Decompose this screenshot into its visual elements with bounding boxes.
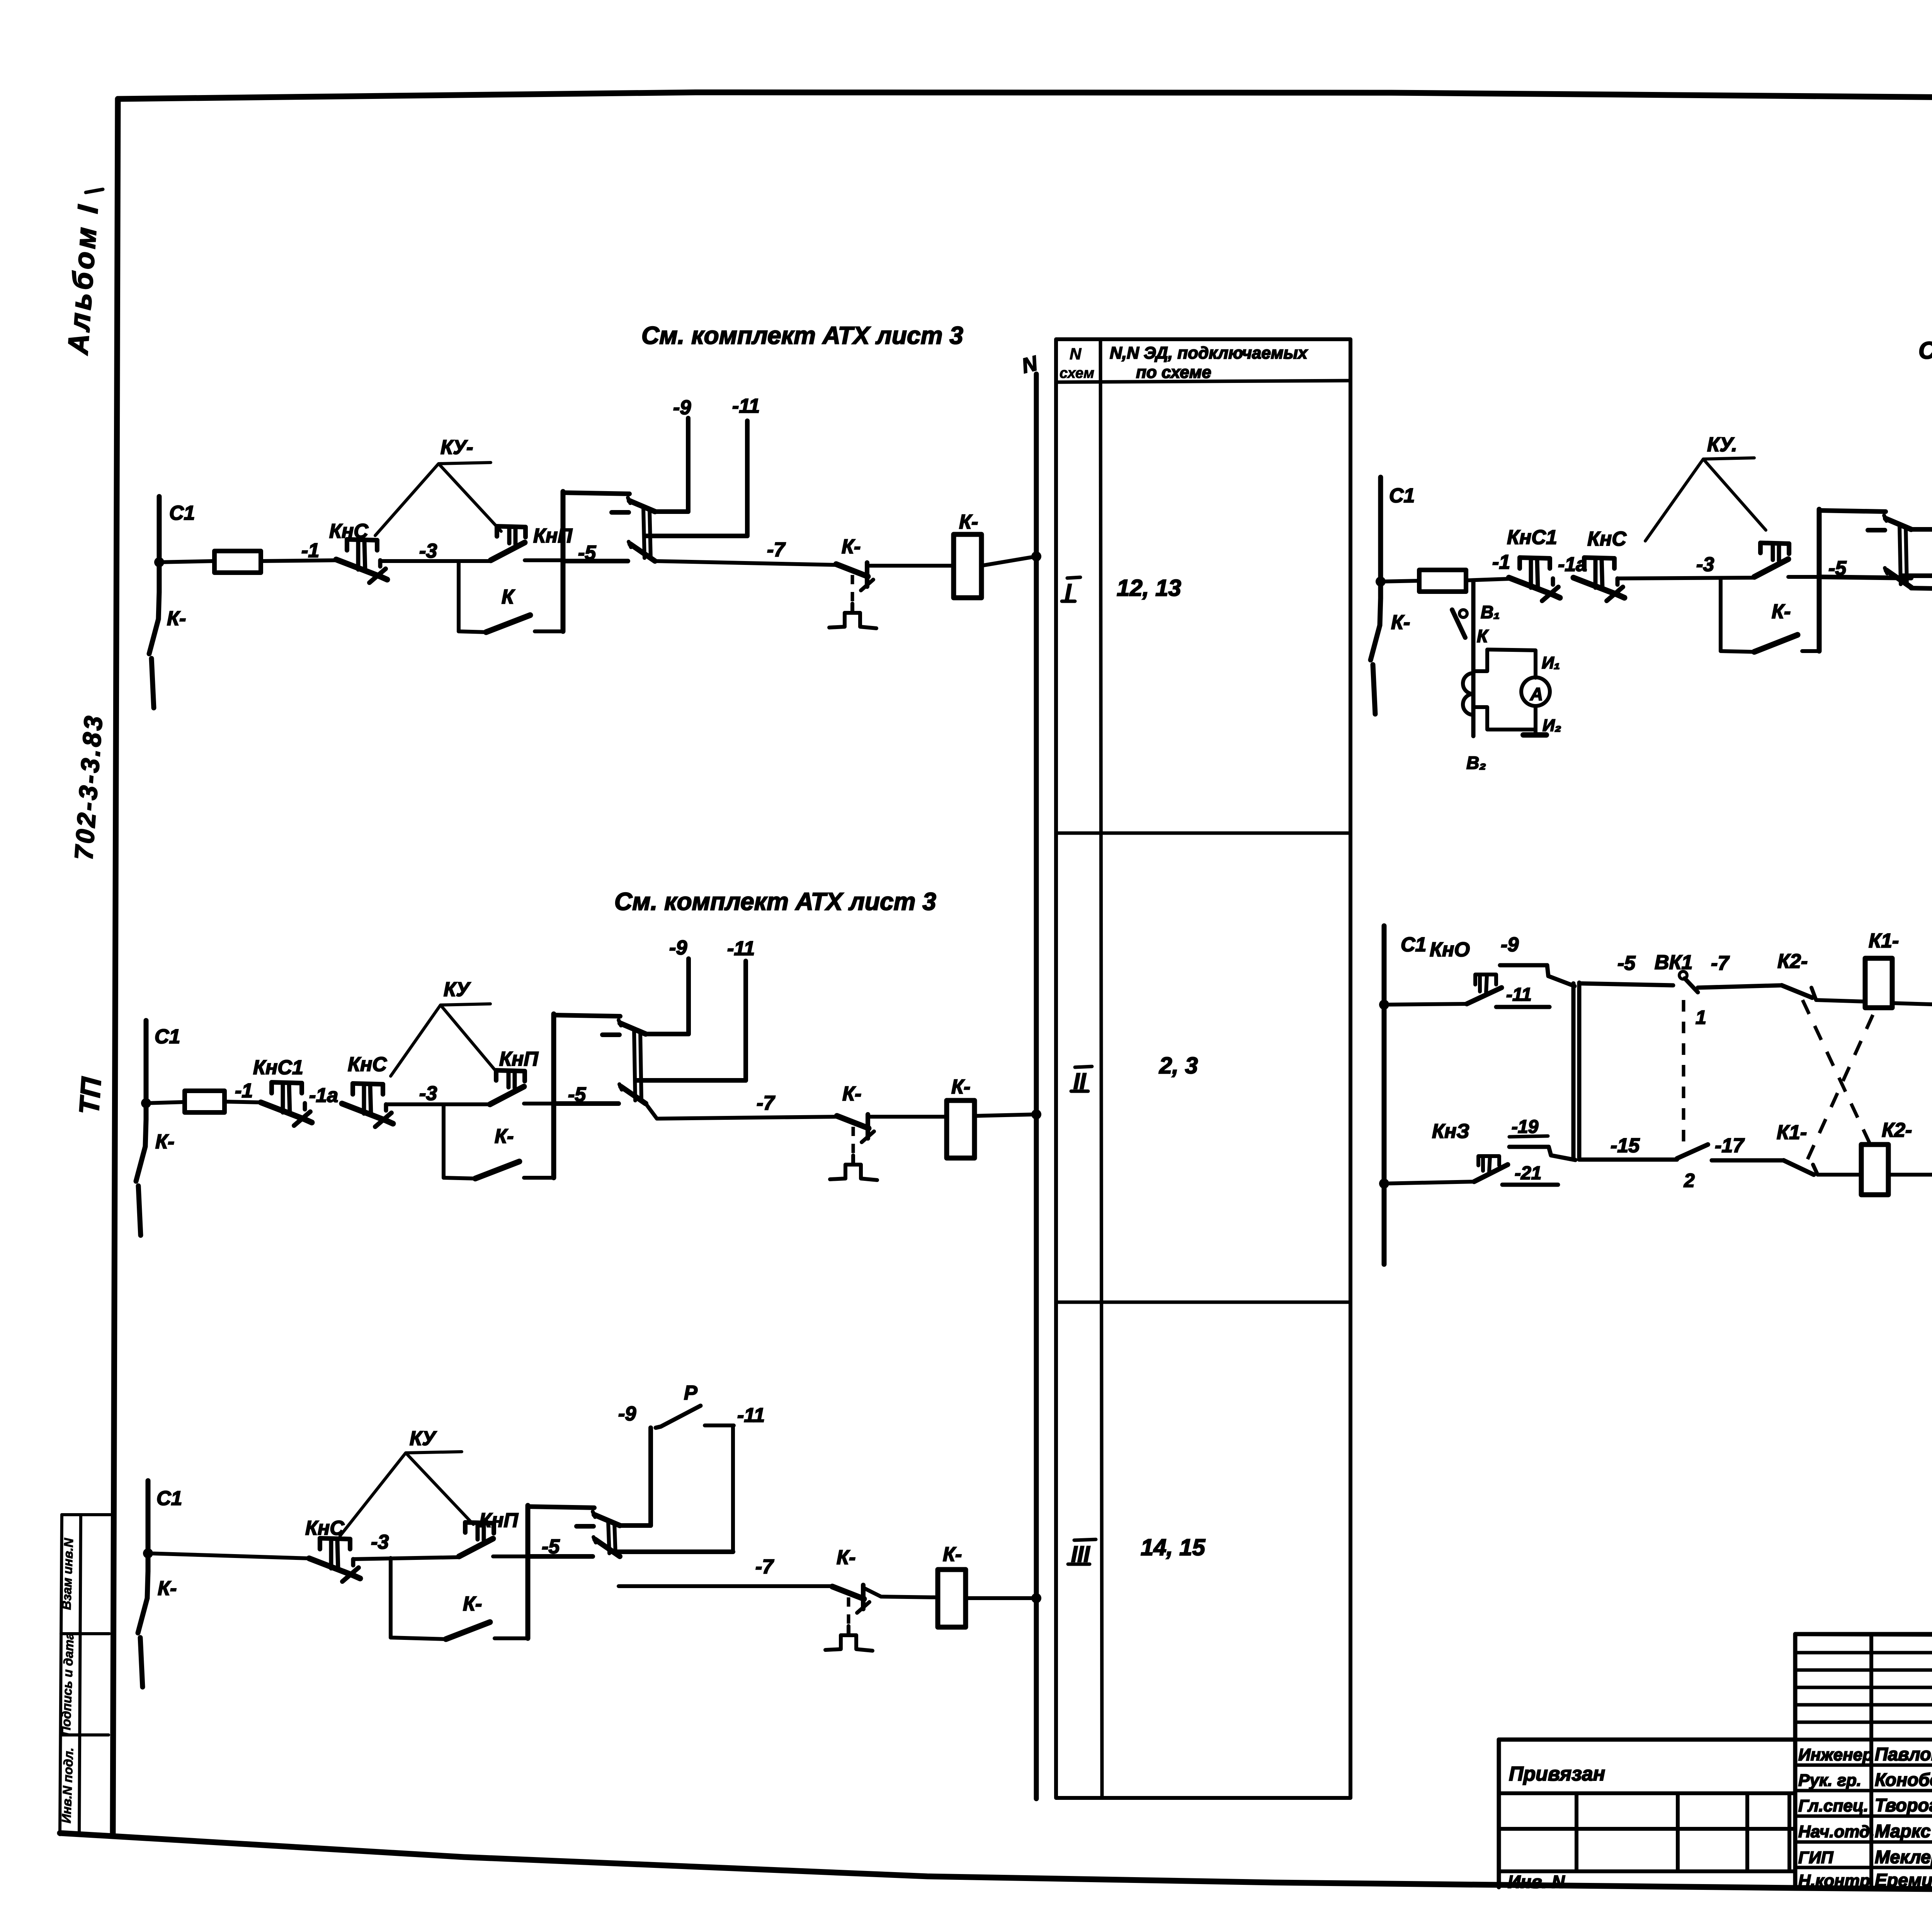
disconnect К- on bus (circuit I) — [158, 592, 159, 619]
linkage КУ (circuit IV) — [1645, 458, 1766, 541]
bus N (left table) — [1034, 374, 1039, 1799]
svg-text:-1: -1 — [235, 1080, 253, 1102]
title main box top line — [1795, 1634, 1932, 1637]
svg-text:КнП: КнП — [499, 1048, 539, 1070]
svg-text:Меклер: Меклер — [1875, 1847, 1932, 1867]
wire: C1 to fuse (circuit I) — [159, 561, 214, 562]
wire: fuse to КнС1 (circuit II) — [224, 1102, 261, 1102]
svg-text:К-: К- — [951, 1076, 970, 1098]
wire: secondary bottom stub (circuit IV) — [1475, 706, 1536, 733]
left table row I overline — [1067, 577, 1080, 578]
svg-text:Маркс: Маркс — [1875, 1821, 1931, 1841]
svg-text:КУ.: КУ. — [1707, 434, 1737, 456]
linkage КУ (circuit III) — [340, 1452, 473, 1536]
wire: КнС to КнП (circuit I) — [380, 559, 490, 563]
terminal -19 overline (circuit V) — [1509, 1136, 1548, 1137]
wire: КнП to -5 vertical (circuit II) — [524, 1102, 554, 1105]
wire: branch В1 down (circuit IV) — [1471, 582, 1476, 736]
svg-text:К-: К- — [155, 1131, 174, 1153]
wire: C1 to fuse (circuit IV) — [1381, 581, 1419, 582]
wire: КнС to КнП (circuit IV) — [1617, 578, 1754, 578]
frame bottom border — [60, 1833, 1932, 1890]
signoff thin row line 4 — [1795, 1703, 1932, 1707]
wire: ВК1 to К2- (circuit V) — [1698, 985, 1782, 988]
push-button КнС (circuit I) — [336, 560, 387, 580]
dashed cross link 2 (circuit V) — [1808, 1005, 1877, 1159]
wire: КнС to КнП (circuit III) — [353, 1557, 459, 1559]
wire: top rail to ВК1 (circuit V) — [1579, 983, 1673, 985]
wire: bus to КнЗ (circuit V) — [1384, 1182, 1474, 1184]
svg-text:Рук. гр.: Рук. гр. — [1798, 1771, 1861, 1790]
svg-text:-3: -3 — [1696, 553, 1714, 576]
svg-text:-9: -9 — [673, 396, 691, 419]
signoff thin row line 3 — [1795, 1686, 1932, 1689]
svg-text:12, 13: 12, 13 — [1117, 575, 1181, 601]
svg-text:-5: -5 — [1828, 557, 1847, 580]
title block привязан row line 3 — [1499, 1869, 1795, 1873]
left table row I underline — [1062, 600, 1075, 603]
switch К- with pedestal (circuit I) — [836, 564, 868, 577]
svg-text:ВК1: ВК1 — [1655, 951, 1692, 974]
wire: bypass drop (circuit II) — [442, 1104, 446, 1178]
svg-text:-9: -9 — [618, 1403, 636, 1425]
wire: coil to N bus (circuit III) — [966, 1596, 1036, 1600]
node: N bus connection (circuit III) — [1031, 1593, 1041, 1603]
svg-text:И₂: И₂ — [1543, 716, 1561, 735]
svg-text:См. комплект АТХ лист 3: См. комплект АТХ лист 3 — [614, 888, 936, 915]
wire: bypass rail right (circuit III) — [495, 1636, 528, 1640]
bus C1 (circuit IV) — [1378, 477, 1383, 598]
svg-text:И₁: И₁ — [1542, 653, 1560, 672]
contact К- bypass (circuit II) — [475, 1162, 519, 1179]
svg-text:-5: -5 — [1617, 952, 1636, 975]
svg-text:-7: -7 — [757, 1092, 775, 1114]
svg-text:С1: С1 — [156, 1487, 182, 1510]
mini column cell line 1 — [61, 1632, 109, 1635]
title block привязан vertical b — [1676, 1793, 1680, 1871]
actuator КнО (circuit V) — [1475, 975, 1496, 992]
svg-text:К-: К- — [495, 1125, 514, 1148]
svg-text:-9: -9 — [669, 937, 687, 959]
push-button КнП (circuit III) — [459, 1539, 493, 1556]
wire: bypass drop (circuit III) — [389, 1558, 393, 1638]
wire: coil to N bus (circuit II) — [975, 1114, 1036, 1116]
signoff name row line 3 — [1795, 1815, 1932, 1818]
wire: -11 loop down (circuit III) — [731, 1425, 735, 1552]
svg-text:-5: -5 — [578, 542, 596, 564]
svg-text:К-: К- — [158, 1577, 177, 1600]
wire: bypass rail right (circuit II) — [524, 1176, 554, 1180]
wire: bypass rail right (circuit IV) — [1802, 649, 1819, 653]
svg-text:К-: К- — [1772, 600, 1791, 623]
push-button КнО blade (circuit V) — [1467, 988, 1502, 1004]
svg-text:КУ: КУ — [410, 1427, 437, 1450]
selector contact block КУ (circuit II) — [551, 1014, 556, 1178]
push-button КнП (circuit I) — [491, 543, 525, 560]
bus C1 (circuit III) — [146, 1481, 151, 1571]
push-button КнС1 (circuit IV) — [1509, 578, 1560, 598]
terminal -9 bar (circuit V) — [1500, 963, 1547, 968]
svg-text:-5: -5 — [542, 1536, 560, 1558]
svg-text:А: А — [1530, 684, 1543, 704]
wire: secondary top stub (circuit IV) — [1475, 650, 1536, 678]
disconnect К- on bus (circuit II) — [145, 1119, 146, 1146]
wire: bypass rail (circuit II) — [444, 1178, 475, 1179]
actuator КнЗ (circuit V) — [1478, 1156, 1499, 1172]
svg-text:-1а: -1а — [309, 1084, 338, 1107]
svg-text:-3: -3 — [371, 1531, 389, 1553]
fuse Пр (circuit IV) — [1419, 570, 1466, 592]
coil К- (circuit II) — [947, 1100, 975, 1158]
push-button КнП (circuit IV) — [1754, 559, 1788, 577]
bus C1 (circuit I) — [157, 497, 162, 592]
svg-text:по схеме: по схеме — [1136, 363, 1211, 382]
title block привязан vertical d — [1787, 1793, 1791, 1871]
mini column cell line 2 — [61, 1733, 109, 1736]
push-button КнС (circuit IV) — [1573, 578, 1624, 598]
terminal -21 underline (circuit V) — [1502, 1183, 1558, 1187]
contact К- bypass (circuit III) — [446, 1622, 490, 1639]
disconnect К- on bus (circuit IV) — [1380, 598, 1381, 625]
svg-text:КнП: КнП — [533, 525, 573, 547]
mini column top line — [62, 1513, 110, 1516]
signoff name row line 5 — [1795, 1866, 1932, 1869]
wire: main through block (circuit IV) — [1819, 577, 1911, 578]
margin underline for I — [86, 189, 103, 192]
wire: C1 to КнС (circuit III) — [148, 1553, 309, 1558]
title block привязан row line 1 — [1499, 1791, 1795, 1795]
svg-text:В₁: В₁ — [1481, 602, 1500, 622]
svg-text:-1: -1 — [1492, 551, 1510, 573]
linkage КУ (circuit II) — [391, 1004, 495, 1076]
svg-text:Коноболов: Коноболов — [1875, 1769, 1932, 1790]
transformer winding (circuit IV) — [1463, 673, 1473, 715]
svg-text:Инв. N: Инв. N — [1508, 1872, 1565, 1892]
svg-text:С1: С1 — [1401, 934, 1426, 956]
svg-text:Инженер: Инженер — [1798, 1745, 1873, 1764]
svg-text:К: К — [1477, 626, 1489, 646]
svg-text:Еремина: Еремина — [1875, 1870, 1932, 1890]
wire: К1- to coil К2- (circuit V) — [1813, 1165, 1861, 1175]
wire: -7 segment (circuit III) — [619, 1584, 833, 1588]
svg-text:КУ: КУ — [444, 978, 471, 1001]
selector contact block КУ (circuit I) — [561, 492, 566, 631]
left table row line I/II — [1056, 832, 1350, 835]
wire: Р to -11 (circuit III) — [705, 1423, 734, 1427]
svg-text:К2-: К2- — [1777, 950, 1808, 973]
disconnect К- on bus (circuit III) — [147, 1571, 148, 1598]
node: C1 tap (circuit I) — [154, 557, 164, 567]
svg-text:Н.контр: Н.контр — [1798, 1871, 1870, 1890]
bus C1 (circuit II) — [144, 1020, 149, 1119]
wire: -7 segment (circuit IV) — [1911, 588, 1932, 591]
wire: fuse to КнС (circuit I) — [261, 560, 336, 561]
wire: К2- to coil К1- (circuit V) — [1811, 988, 1865, 1002]
wire: bypass rail (circuit IV) — [1721, 651, 1754, 652]
wire: coil К1- to corner (circuit V) — [1892, 1003, 1932, 1097]
svg-text:С1: С1 — [155, 1026, 180, 1048]
svg-text:ГИП: ГИП — [1798, 1848, 1834, 1867]
svg-text:-19: -19 — [1512, 1117, 1539, 1137]
coil К- (circuit I) — [954, 534, 981, 598]
push-button КнС (circuit III) — [309, 1558, 360, 1578]
svg-text:-3: -3 — [419, 540, 437, 562]
svg-text:-17: -17 — [1715, 1134, 1745, 1157]
switch Р at top (circuit III) — [656, 1406, 701, 1428]
dashed cross link 1 (circuit V) — [1803, 1000, 1872, 1148]
wire: КнП to -5 vertical (circuit III) — [493, 1554, 528, 1558]
svg-text:-1: -1 — [301, 539, 319, 562]
node: КнЗ tap (circuit V) — [1379, 1179, 1389, 1189]
svg-text:К-: К- — [943, 1543, 962, 1566]
title block привязан vertical c — [1745, 1793, 1749, 1871]
svg-text:Гл.спец.: Гл.спец. — [1798, 1796, 1868, 1815]
svg-text:Р: Р — [684, 1382, 697, 1404]
svg-text:КнЗ: КнЗ — [1432, 1120, 1469, 1143]
terminal tick И2 (circuit IV) — [1523, 732, 1546, 738]
title block привязан top line — [1499, 1738, 1795, 1742]
node: C1 tap (circuit III) — [143, 1548, 153, 1558]
node: КнО tap (circuit V) — [1379, 1000, 1389, 1010]
svg-text:С1: С1 — [1389, 485, 1415, 507]
svg-text:-3: -3 — [419, 1082, 437, 1105]
wire: switch to coil (circuit I) — [868, 564, 954, 568]
contact К2- (circuit V) — [1782, 985, 1812, 998]
svg-text:КнС1: КнС1 — [253, 1056, 303, 1079]
wire: bypass drop (circuit I) — [457, 561, 461, 631]
svg-text:К2-: К2- — [1882, 1119, 1912, 1141]
svg-text:КУ-: КУ- — [440, 436, 473, 459]
signoff name row line 1 — [1795, 1764, 1932, 1767]
frame top border — [118, 92, 1932, 104]
svg-text:КнП: КнП — [479, 1509, 519, 1532]
linkage КУ- (circuit I) — [375, 463, 501, 536]
svg-text:К: К — [502, 586, 515, 608]
svg-text:2: 2 — [1684, 1170, 1695, 1191]
svg-text:См. комплект АТХ лист 3: См. комплект АТХ лист 3 — [1918, 337, 1932, 364]
svg-text:-11: -11 — [1506, 985, 1532, 1005]
svg-text:КнО: КнО — [1430, 939, 1470, 961]
wire: -9 corner to rail (circuit V) — [1547, 965, 1575, 986]
svg-text:К-: К- — [1391, 611, 1410, 634]
wire: C1 to fuse (circuit II) — [146, 1102, 185, 1103]
signoff vertical роль — [1869, 1634, 1873, 1889]
svg-text:-11: -11 — [727, 937, 755, 960]
title block привязан left edge — [1497, 1740, 1501, 1887]
left table outer frame — [1056, 339, 1350, 1798]
svg-text:14, 15: 14, 15 — [1141, 1534, 1206, 1560]
left table row II underline — [1071, 1090, 1088, 1093]
wire: bottom rail from bars (circuit V) — [1579, 1158, 1677, 1162]
svg-text:К1-: К1- — [1777, 1121, 1807, 1144]
signoff row line top names — [1795, 1738, 1932, 1742]
push-button КнП (circuit II) — [490, 1087, 524, 1104]
svg-text:N,N ЭД, подключаемых: N,N ЭД, подключаемых — [1110, 344, 1308, 362]
svg-text:-5: -5 — [568, 1083, 586, 1106]
coil К2- (circuit V) — [1861, 1145, 1888, 1195]
wire: switch to coil (circuit II) — [869, 1115, 947, 1119]
svg-text:Павлова: Павлова — [1875, 1744, 1932, 1764]
svg-text:К-: К- — [842, 536, 861, 558]
wire: -7 segment (circuit I) — [655, 561, 836, 565]
contact К- bypass (circuit IV) — [1754, 635, 1798, 652]
svg-text:Привязан: Привязан — [1509, 1763, 1605, 1785]
svg-text:N: N — [1070, 345, 1082, 363]
link double bar left (circuit V) — [1573, 983, 1579, 1160]
wire: -17 segment (circuit V) — [1712, 1158, 1784, 1163]
svg-text:К-: К- — [167, 607, 186, 630]
wire: -19 corner to rail (circuit V) — [1549, 1147, 1575, 1160]
left table row II overline — [1075, 1066, 1092, 1067]
node: C1 tap (circuit IV) — [1376, 577, 1386, 587]
svg-text:КнС: КнС — [348, 1053, 387, 1076]
switch К- with pedestal (circuit III) — [832, 1587, 864, 1599]
switch В1 (circuit IV) — [1452, 610, 1465, 638]
wire: -7 segment (circuit II) — [646, 1104, 837, 1119]
left table row III overline — [1074, 1539, 1096, 1540]
wire: bus to КнО (circuit V) — [1384, 1004, 1467, 1005]
left table row line II/III — [1056, 1301, 1350, 1304]
wire: КнС to КнП (circuit II) — [386, 1102, 490, 1106]
wire: КнП to -5 vertical (circuit I) — [525, 558, 563, 562]
svg-text:-21: -21 — [1515, 1163, 1541, 1184]
wire: bypass drop (circuit IV) — [1719, 578, 1723, 651]
terminal -11 underline (circuit V) — [1496, 1005, 1549, 1009]
wire: КнП to -5 vertical (circuit IV) — [1788, 575, 1819, 579]
coil К1- (circuit V) — [1865, 958, 1892, 1008]
svg-text:Нач.отд.: Нач.отд. — [1798, 1822, 1874, 1841]
svg-text:-7: -7 — [755, 1556, 774, 1578]
selector contact block КУ (circuit III) — [526, 1505, 531, 1638]
svg-text:ТП: ТП — [74, 1076, 107, 1116]
push-button КнС (circuit II) — [342, 1104, 393, 1124]
signoff table outline — [1795, 1634, 1932, 1889]
title block привязан vertical a — [1575, 1793, 1578, 1871]
dashed link ВК1 (circuit V) — [1682, 1000, 1685, 1150]
svg-text:В₂: В₂ — [1466, 753, 1486, 773]
wire: coil К2- to corner (circuit V) — [1888, 1097, 1932, 1175]
wire: coil to N bus (circuit I) — [981, 556, 1036, 566]
push-button КнС1 (circuit II) — [261, 1102, 312, 1122]
svg-text:2, 3: 2, 3 — [1159, 1053, 1198, 1078]
frame left border — [113, 99, 118, 1836]
wire: switch to coil (circuit III) — [864, 1588, 938, 1597]
svg-text:Творогов: Творогов — [1875, 1795, 1932, 1815]
svg-text:КнС: КнС — [1587, 528, 1627, 550]
left table row III underline — [1068, 1563, 1090, 1566]
svg-text:К-: К- — [463, 1593, 482, 1615]
left table column divider — [1100, 340, 1102, 1798]
mini column divider line — [79, 1515, 81, 1835]
signoff name row line 2 — [1795, 1789, 1932, 1793]
signoff thin row line 2 — [1795, 1668, 1932, 1672]
wire: bypass rail (circuit I) — [459, 631, 486, 632]
node: N bus connection (circuit I) — [1031, 551, 1041, 561]
svg-text:К-: К- — [959, 511, 978, 533]
title block привязан row line 2 — [1499, 1827, 1795, 1831]
svg-text:С1: С1 — [169, 502, 195, 524]
svg-text:К-: К- — [837, 1546, 855, 1569]
svg-text:К1-: К1- — [1869, 930, 1899, 952]
terminal -19 bar (circuit V) — [1509, 1145, 1549, 1149]
signoff name row line 4 — [1795, 1840, 1932, 1844]
svg-text:КнС1: КнС1 — [1507, 526, 1557, 549]
svg-text:-7: -7 — [1711, 952, 1730, 975]
switch ВК1 (circuit V) — [1685, 978, 1698, 992]
coil К- (circuit III) — [938, 1570, 966, 1627]
svg-text:-11: -11 — [737, 1404, 765, 1427]
signoff thin row line 5 — [1795, 1721, 1932, 1724]
ammeter А (circuit IV) — [1521, 677, 1550, 706]
svg-text:1: 1 — [1696, 1007, 1706, 1028]
svg-text:КнС: КнС — [329, 520, 369, 543]
svg-text:-7: -7 — [767, 539, 786, 561]
fuse Пр (circuit II) — [185, 1091, 224, 1112]
svg-text:-9: -9 — [1501, 934, 1519, 956]
contact К1- (circuit V) — [1784, 1160, 1814, 1175]
fuse Пр (circuit I) — [214, 551, 261, 573]
left table header underline — [1056, 381, 1350, 382]
svg-text:-15: -15 — [1611, 1134, 1640, 1157]
push-button КнЗ blade (circuit V) — [1474, 1165, 1508, 1182]
svg-text:Инв.N подл.: Инв.N подл. — [59, 1747, 76, 1823]
contact К bypass (circuit I) — [486, 615, 530, 632]
wire: bypass rail right (circuit I) — [535, 629, 563, 633]
bus C1 (circuit V) — [1382, 926, 1387, 1264]
svg-text:См. комплект АТХ лист 3: См. комплект АТХ лист 3 — [641, 321, 963, 349]
switch К- with pedestal (circuit II) — [837, 1116, 869, 1128]
selector contact block КУ (circuit IV) — [1817, 509, 1822, 651]
svg-text:схем: схем — [1060, 365, 1094, 381]
wire: fuse to КнС1 (circuit IV) — [1466, 579, 1509, 580]
wire: bypass rail (circuit III) — [391, 1638, 446, 1639]
contact 2 blade (circuit V) — [1677, 1145, 1708, 1158]
node: N bus connection (circuit II) — [1031, 1109, 1041, 1119]
svg-text:Взам инв.N: Взам инв.N — [59, 1537, 76, 1610]
svg-text:К-: К- — [842, 1083, 861, 1105]
node: C1 tap (circuit II) — [141, 1098, 151, 1108]
svg-text:-11: -11 — [732, 395, 760, 417]
mini column outer line — [60, 1515, 62, 1835]
signoff thin row line 1 — [1795, 1651, 1932, 1655]
